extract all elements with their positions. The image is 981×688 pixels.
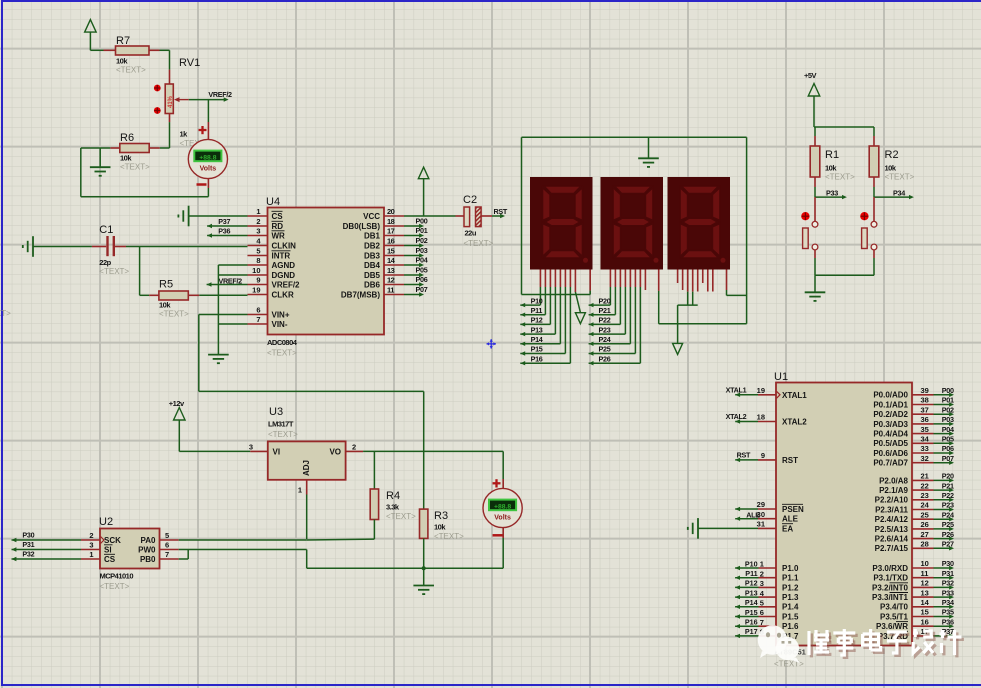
svg-text:P05: P05 bbox=[942, 435, 954, 444]
svg-text:10: 10 bbox=[921, 559, 929, 568]
svg-text:19: 19 bbox=[757, 386, 765, 395]
svg-text:11: 11 bbox=[387, 286, 394, 295]
svg-text:P34: P34 bbox=[942, 598, 954, 607]
terminal arrow (display bus) bbox=[673, 343, 683, 354]
svg-text:P25: P25 bbox=[599, 345, 611, 354]
svg-text:20: 20 bbox=[387, 207, 395, 216]
wire (D3 cathode bus) bbox=[659, 305, 747, 343]
svg-text:+12v: +12v bbox=[169, 399, 185, 408]
svg-text:3: 3 bbox=[249, 443, 253, 452]
svg-text:CS: CS bbox=[104, 555, 116, 564]
svg-text:10k: 10k bbox=[434, 523, 446, 532]
svg-text:P12: P12 bbox=[531, 316, 543, 325]
7-segment display D1 bbox=[530, 177, 593, 270]
svg-text:6: 6 bbox=[256, 306, 260, 315]
net terminal P34 bbox=[874, 188, 914, 199]
svg-text:3.3k: 3.3k bbox=[386, 503, 400, 512]
svg-text:P3.0/RXD: P3.0/RXD bbox=[872, 564, 908, 573]
svg-text:P32: P32 bbox=[942, 579, 954, 588]
svg-text:3: 3 bbox=[256, 227, 260, 236]
wire (RV1 bottom to R6) bbox=[160, 122, 170, 148]
svg-text:R3: R3 bbox=[434, 510, 448, 522]
svg-text:P04: P04 bbox=[416, 255, 428, 264]
svg-text:P1.6: P1.6 bbox=[782, 622, 799, 631]
wire (C1 to CLKIN pin4) bbox=[126, 246, 248, 248]
svg-text:<TEXT>: <TEXT> bbox=[434, 532, 464, 541]
svg-text:EA: EA bbox=[782, 524, 793, 533]
svg-text:8: 8 bbox=[256, 256, 260, 265]
wire (top ground rail over displays) bbox=[522, 137, 747, 323]
U1 pin 36 P0.3/AD3 bbox=[873, 415, 954, 429]
U4 pin 1 CS bbox=[248, 207, 284, 221]
U1 pin 35 P0.4/AD4 bbox=[873, 425, 954, 439]
svg-text:19: 19 bbox=[252, 286, 260, 295]
svg-text:P3.6/WR: P3.6/WR bbox=[876, 622, 908, 631]
svg-text:P0.5/AD5: P0.5/AD5 bbox=[873, 439, 908, 448]
svg-text:5: 5 bbox=[760, 599, 764, 608]
svg-text:29: 29 bbox=[757, 500, 765, 509]
U1 pin 7 P1.6 bbox=[735, 618, 799, 632]
U4 pin 14 DB4 bbox=[364, 256, 404, 270]
svg-text:CLKIN: CLKIN bbox=[272, 242, 297, 251]
U1 pin 28 P2.7/A15 bbox=[875, 540, 954, 554]
7-segment display D3 bbox=[668, 177, 731, 270]
svg-text:2: 2 bbox=[352, 443, 356, 452]
svg-text:VREF/2: VREF/2 bbox=[219, 277, 243, 286]
svg-text:DGND: DGND bbox=[272, 271, 296, 280]
svg-text:10: 10 bbox=[252, 266, 260, 275]
svg-text:+88.8: +88.8 bbox=[494, 503, 511, 510]
svg-text:5: 5 bbox=[165, 531, 169, 540]
svg-text:P02: P02 bbox=[416, 236, 428, 245]
net terminal VREF/2 (to U4 pin9) bbox=[207, 277, 248, 287]
U2 pin 2 SCK bbox=[81, 531, 121, 545]
svg-text:P2.2/A10: P2.2/A10 bbox=[875, 496, 909, 505]
svg-text:PW0: PW0 bbox=[138, 546, 156, 555]
wire bbox=[90, 49, 103, 51]
svg-text:P3.2/INT0: P3.2/INT0 bbox=[872, 583, 909, 592]
svg-text:P11: P11 bbox=[531, 306, 543, 315]
display D3 pins bbox=[678, 270, 747, 306]
svg-text:P1.4: P1.4 bbox=[782, 603, 799, 612]
svg-text:P27: P27 bbox=[942, 540, 954, 549]
svg-text:P3.5/T1: P3.5/T1 bbox=[880, 612, 909, 621]
svg-text:<TEXT>: <TEXT> bbox=[885, 173, 915, 182]
svg-text:P2.4/A12: P2.4/A12 bbox=[875, 515, 909, 524]
net terminal P10 bbox=[520, 296, 542, 307]
svg-text:AGND: AGND bbox=[272, 261, 296, 270]
U1 pin 31 EA with ground bbox=[688, 518, 794, 539]
wire bbox=[33, 246, 92, 248]
svg-text:P03: P03 bbox=[942, 415, 954, 424]
svg-text:P2.1/A9: P2.1/A9 bbox=[879, 486, 908, 495]
U1 pin 38 P0.1/AD1 bbox=[873, 396, 954, 410]
svg-text:27: 27 bbox=[921, 530, 929, 539]
U4 pin 13 DB5 bbox=[364, 266, 404, 280]
svg-text:P14: P14 bbox=[531, 335, 543, 344]
svg-text:21: 21 bbox=[921, 472, 929, 481]
resistor R3 (10k) bbox=[420, 509, 465, 585]
svg-text:ADC0804: ADC0804 bbox=[267, 338, 298, 347]
svg-text:U4: U4 bbox=[266, 196, 280, 208]
wire (PA0 to R4/ADJ rail) bbox=[179, 538, 375, 541]
svg-text:SI: SI bbox=[104, 546, 112, 555]
svg-text:P16: P16 bbox=[745, 618, 758, 627]
svg-text:DB3: DB3 bbox=[364, 252, 381, 261]
net terminal P15 bbox=[520, 345, 565, 356]
svg-text:P21: P21 bbox=[942, 481, 954, 490]
net terminal P33 bbox=[815, 188, 847, 199]
svg-text:P0.7/AD7: P0.7/AD7 bbox=[873, 459, 908, 468]
U4 pin 18 DB0(LSB) bbox=[343, 217, 404, 231]
svg-text:VCC: VCC bbox=[363, 212, 380, 221]
U1 pin 3 P1.2 bbox=[735, 579, 799, 593]
svg-text:P1.5: P1.5 bbox=[782, 612, 799, 621]
junction bbox=[422, 566, 426, 570]
svg-text:P26: P26 bbox=[599, 354, 611, 363]
svg-text:<TEXT>: <TEXT> bbox=[99, 267, 129, 276]
net terminal P01 (U4 DB1) bbox=[404, 226, 428, 238]
svg-text:P1.3: P1.3 bbox=[782, 593, 799, 602]
U1 pin 11 P3.1/TXD bbox=[873, 569, 954, 583]
svg-text:P3.1/TXD: P3.1/TXD bbox=[873, 574, 908, 583]
svg-text:INTR: INTR bbox=[272, 252, 291, 261]
net terminal P21 bbox=[589, 306, 616, 317]
U4 pin 19 CLKR bbox=[248, 286, 294, 300]
svg-text:U2: U2 bbox=[99, 516, 113, 528]
svg-text:5: 5 bbox=[256, 247, 260, 256]
wire (PW0/PB0 join) bbox=[179, 550, 307, 560]
svg-text:P01: P01 bbox=[416, 226, 428, 235]
RV1 interactive red dots bbox=[154, 85, 161, 114]
svg-text:VIN-: VIN- bbox=[272, 320, 288, 329]
svg-text:<TEXT>: <TEXT> bbox=[464, 239, 494, 248]
svg-text:P1.0: P1.0 bbox=[782, 564, 799, 573]
svg-text:<TEXT>: <TEXT> bbox=[120, 163, 150, 172]
svg-text:1: 1 bbox=[89, 550, 93, 559]
svg-text:P07: P07 bbox=[942, 454, 954, 463]
svg-text:P24: P24 bbox=[599, 335, 611, 344]
net terminal XTAL1 bbox=[726, 385, 758, 397]
svg-text:1: 1 bbox=[256, 207, 260, 216]
svg-text:XTAL1: XTAL1 bbox=[782, 391, 807, 400]
svg-text:P37: P37 bbox=[218, 217, 230, 226]
svg-text:P22: P22 bbox=[599, 316, 611, 325]
svg-text:23: 23 bbox=[921, 491, 929, 500]
U4 pin 2 RD bbox=[248, 217, 284, 231]
resistor R7 bbox=[104, 35, 160, 75]
U1 pin 19 XTAL1 bbox=[757, 386, 808, 400]
U2 pin 5 PA0 bbox=[141, 531, 179, 545]
U4 pin 10 DGND bbox=[248, 266, 296, 280]
U4 pin 8 AGND bbox=[248, 256, 296, 270]
svg-text:P2.7/A15: P2.7/A15 bbox=[875, 544, 909, 553]
svg-text:P3.4/T0: P3.4/T0 bbox=[880, 603, 909, 612]
svg-text:R6: R6 bbox=[120, 132, 134, 144]
wire (junction down to R5) bbox=[140, 247, 150, 296]
U4 pin 4 CLKIN bbox=[248, 237, 297, 251]
wire bbox=[160, 50, 170, 69]
svg-text:DB4: DB4 bbox=[364, 261, 381, 270]
net terminal P11 bbox=[520, 306, 545, 317]
svg-text:1: 1 bbox=[760, 560, 764, 569]
U1 pin 23 P2.2/A10 bbox=[875, 491, 954, 505]
svg-text:RST: RST bbox=[782, 456, 798, 465]
svg-text:P34: P34 bbox=[893, 188, 905, 197]
svg-text:XTAL2: XTAL2 bbox=[726, 412, 747, 421]
svg-text:ALE: ALE bbox=[782, 515, 799, 524]
svg-text:P13: P13 bbox=[745, 588, 758, 597]
svg-text:R4: R4 bbox=[386, 490, 400, 502]
svg-text:10k: 10k bbox=[116, 57, 128, 66]
svg-text:P05: P05 bbox=[416, 265, 428, 274]
U2 pin 3 SI bbox=[81, 541, 113, 555]
power terminal +12V bbox=[169, 399, 185, 451]
svg-text:VIN+: VIN+ bbox=[272, 311, 290, 320]
svg-text:P33: P33 bbox=[826, 188, 838, 197]
svg-text:7: 7 bbox=[256, 315, 260, 324]
U2 pin 6 PW0 bbox=[138, 541, 179, 555]
svg-text:P0.4/AD4: P0.4/AD4 bbox=[873, 430, 908, 439]
resistor R4 (3.3k) bbox=[370, 451, 416, 539]
watermark text 懂事电子设计 bbox=[809, 629, 964, 657]
svg-text:Volts: Volts bbox=[494, 515, 511, 522]
svg-text:3: 3 bbox=[760, 579, 764, 588]
ground (under R6) bbox=[90, 148, 111, 176]
net terminal P23 bbox=[589, 325, 626, 336]
U1 pin 16 P3.6/WR bbox=[876, 617, 954, 631]
7-segment display D2 bbox=[601, 177, 664, 270]
svg-text:ALE: ALE bbox=[746, 510, 760, 519]
svg-text:WR: WR bbox=[272, 232, 286, 241]
svg-text:P0.2/AD2: P0.2/AD2 bbox=[873, 410, 908, 419]
U1 pin 4 P1.3 bbox=[735, 588, 799, 602]
U1 pin 6 P1.5 bbox=[735, 608, 799, 622]
svg-text:18: 18 bbox=[387, 217, 395, 226]
U1 pin 22 P2.1/A9 bbox=[879, 481, 954, 495]
svg-text:R2: R2 bbox=[885, 149, 899, 161]
U4 pin 17 DB1 bbox=[364, 227, 404, 241]
net terminal P12 bbox=[520, 316, 550, 327]
U3 pin 3 VI bbox=[249, 443, 280, 457]
svg-text:VREF/2: VREF/2 bbox=[272, 281, 301, 290]
svg-text:P10: P10 bbox=[531, 296, 543, 305]
svg-text:RST: RST bbox=[494, 207, 508, 216]
terminal arrow (D1 common) bbox=[575, 292, 585, 324]
svg-text:P10: P10 bbox=[745, 559, 758, 568]
svg-text:24: 24 bbox=[921, 501, 930, 510]
power terminal +5V bbox=[804, 71, 820, 127]
power terminal (top-left, +V arrow) bbox=[85, 20, 97, 51]
svg-text:P3.3/INT1: P3.3/INT1 bbox=[872, 593, 909, 602]
svg-text:<TEXT>: <TEXT> bbox=[100, 582, 130, 591]
svg-text:P23: P23 bbox=[599, 325, 611, 334]
svg-text:22u: 22u bbox=[465, 229, 477, 238]
U4 pin 16 DB2 bbox=[364, 237, 404, 251]
net terminal P14 bbox=[520, 335, 560, 346]
svg-text:P06: P06 bbox=[416, 275, 428, 284]
svg-text:14: 14 bbox=[921, 598, 930, 607]
svg-text:2: 2 bbox=[89, 531, 93, 540]
svg-text:22: 22 bbox=[921, 481, 929, 490]
svg-text:12: 12 bbox=[387, 276, 395, 285]
svg-text:P07: P07 bbox=[416, 285, 428, 294]
svg-text:P2.3/A11: P2.3/A11 bbox=[875, 505, 908, 514]
svg-text:P26: P26 bbox=[942, 530, 954, 539]
U1 pin 39 P0.0/AD0 bbox=[873, 386, 954, 400]
svg-text:9: 9 bbox=[256, 276, 260, 285]
resistor R6 bbox=[110, 132, 159, 172]
capacitor C2 (22u) bbox=[463, 194, 494, 248]
voltage regulator U3 LM317T body bbox=[268, 406, 346, 480]
svg-text:15: 15 bbox=[921, 608, 929, 617]
cursor marker (blue) bbox=[486, 339, 496, 349]
svg-text:10k: 10k bbox=[885, 164, 897, 173]
net terminal P02 (U4 DB2) bbox=[404, 236, 428, 248]
svg-text:7: 7 bbox=[760, 618, 764, 627]
svg-text:DB0(LSB): DB0(LSB) bbox=[343, 222, 381, 231]
svg-text:25: 25 bbox=[921, 510, 929, 519]
svg-text:6: 6 bbox=[760, 608, 764, 617]
voltmeter VM2 (Volts) bbox=[483, 451, 522, 568]
potentiometer RV1 bbox=[165, 57, 209, 148]
svg-text:P12: P12 bbox=[745, 579, 758, 588]
net terminal P30 bbox=[12, 531, 82, 543]
U4 pin 20 VCC bbox=[363, 207, 404, 221]
svg-text:R5: R5 bbox=[159, 279, 173, 291]
svg-text:DB1: DB1 bbox=[364, 232, 381, 241]
svg-text:P13: P13 bbox=[531, 325, 543, 334]
svg-text:P0.1/AD1: P0.1/AD1 bbox=[873, 400, 908, 409]
svg-text:U1: U1 bbox=[774, 371, 788, 383]
svg-text:P22: P22 bbox=[942, 491, 954, 500]
svg-text:P11: P11 bbox=[745, 569, 757, 578]
U1 pin 15 P3.5/T1 bbox=[880, 608, 954, 622]
net terminal P05 (U4 DB5) bbox=[404, 265, 428, 277]
wire (R5 to CLKR pin19) bbox=[199, 294, 247, 296]
svg-text:P16: P16 bbox=[531, 354, 543, 363]
svg-text:RV1: RV1 bbox=[179, 57, 200, 69]
svg-text:U3: U3 bbox=[269, 406, 283, 418]
ground (rotated, at U4 pin1 CS) bbox=[178, 206, 247, 227]
U1 pin 12 P3.2/INT0 bbox=[872, 579, 954, 593]
svg-text:XTAL2: XTAL2 bbox=[782, 418, 807, 427]
U1 pin 27 P2.6/A14 bbox=[875, 530, 954, 544]
svg-text:41%: 41% bbox=[168, 95, 174, 108]
svg-text:7: 7 bbox=[165, 550, 169, 559]
net terminal P04 (U4 DB4) bbox=[404, 255, 428, 267]
svg-text:15: 15 bbox=[387, 247, 395, 256]
U4 pin 11 DB7(MSB) bbox=[341, 286, 404, 300]
U1 pin 13 P3.3/INT1 bbox=[872, 588, 954, 602]
svg-text:P35: P35 bbox=[942, 608, 954, 617]
svg-text:<TEXT>: <TEXT> bbox=[0, 309, 11, 318]
svg-text:2: 2 bbox=[760, 569, 764, 578]
U4 pin 15 DB3 bbox=[364, 247, 404, 261]
wire (ADJ down) bbox=[306, 495, 308, 540]
wire (VIN- to ground net) bbox=[218, 323, 247, 325]
IC U2 MCP41010 body bbox=[99, 516, 160, 591]
svg-text:34: 34 bbox=[921, 435, 930, 444]
svg-text:37: 37 bbox=[921, 405, 929, 414]
svg-text:R7: R7 bbox=[116, 35, 130, 47]
svg-text:P00: P00 bbox=[416, 216, 428, 225]
U1 pin 5 P1.4 bbox=[735, 598, 799, 612]
IC U4 ADC0804 body bbox=[266, 196, 384, 358]
U1 pin 18 XTAL2 bbox=[757, 413, 808, 427]
wire (U4 VCC to C2) with power arrow bbox=[404, 167, 464, 216]
svg-text:6: 6 bbox=[165, 541, 169, 550]
svg-text:VREF/2: VREF/2 bbox=[208, 90, 232, 99]
svg-text:28: 28 bbox=[921, 540, 929, 549]
svg-text:P2.5/A13: P2.5/A13 bbox=[875, 525, 909, 534]
svg-text:P03: P03 bbox=[416, 246, 428, 255]
svg-text:PB0: PB0 bbox=[140, 555, 156, 564]
wire bbox=[179, 450, 250, 452]
display D2 segment pins bbox=[610, 270, 658, 364]
net terminal P20 bbox=[589, 296, 611, 307]
svg-text:P31: P31 bbox=[22, 540, 34, 549]
svg-text:22p: 22p bbox=[99, 258, 111, 267]
svg-text:<TEXT>: <TEXT> bbox=[774, 660, 804, 669]
svg-text:P04: P04 bbox=[942, 425, 954, 434]
U1 pin 26 P2.5/A13 bbox=[875, 520, 954, 534]
U3 pin 2 VO bbox=[329, 443, 363, 457]
wire (VIN+ sense line) bbox=[199, 315, 424, 510]
U2 pin 7 PB0 bbox=[140, 550, 179, 564]
svg-text:12: 12 bbox=[921, 579, 929, 588]
net terminal P16 bbox=[520, 354, 570, 365]
svg-text:P36: P36 bbox=[942, 617, 954, 626]
svg-text:<TEXT>: <TEXT> bbox=[386, 512, 416, 521]
net terminal P24 bbox=[589, 335, 631, 346]
wire (loop to voltmeter -) bbox=[81, 148, 209, 197]
svg-text:<TEXT>: <TEXT> bbox=[116, 66, 146, 75]
svg-text:RST: RST bbox=[737, 450, 751, 459]
display D1 segment pins bbox=[522, 270, 591, 364]
push button SW1 bbox=[801, 197, 818, 275]
svg-text:R1: R1 bbox=[825, 149, 839, 161]
net terminal P31 bbox=[12, 540, 82, 552]
svg-text:<TEXT>: <TEXT> bbox=[825, 173, 855, 182]
svg-text:2: 2 bbox=[256, 217, 260, 226]
svg-text:P0.0/AD0: P0.0/AD0 bbox=[873, 391, 908, 400]
svg-text:10k: 10k bbox=[120, 154, 132, 163]
U1 pin 10 P3.0/RXD bbox=[872, 559, 954, 573]
svg-text:+88.8: +88.8 bbox=[199, 154, 216, 161]
U1 pin 17 P3.7/RD bbox=[878, 627, 954, 641]
svg-text:1: 1 bbox=[298, 486, 302, 495]
svg-text:38: 38 bbox=[921, 396, 929, 405]
net terminal P32 bbox=[12, 550, 82, 562]
U3 pin 1 ADJ bbox=[298, 460, 311, 495]
U1 pin 1 P1.0 bbox=[735, 559, 799, 573]
svg-text:P06: P06 bbox=[942, 444, 954, 453]
svg-text:P23: P23 bbox=[942, 501, 954, 510]
svg-text:16: 16 bbox=[387, 237, 395, 246]
svg-text:Volts: Volts bbox=[200, 166, 217, 173]
wire (bottom rail to voltmeter -) bbox=[307, 550, 504, 569]
svg-text:P14: P14 bbox=[745, 598, 758, 607]
svg-text:39: 39 bbox=[921, 386, 929, 395]
svg-text:9: 9 bbox=[761, 451, 765, 460]
U1 pin 32 P0.7/AD7 bbox=[873, 454, 954, 468]
svg-text:CLKR: CLKR bbox=[272, 291, 294, 300]
wire (AGND/DGND to ground) bbox=[218, 265, 247, 355]
svg-text:P0.3/AD3: P0.3/AD3 bbox=[873, 420, 908, 429]
svg-text:P0.6/AD6: P0.6/AD6 bbox=[873, 449, 908, 458]
U4 pin 5 INTR bbox=[248, 247, 291, 261]
